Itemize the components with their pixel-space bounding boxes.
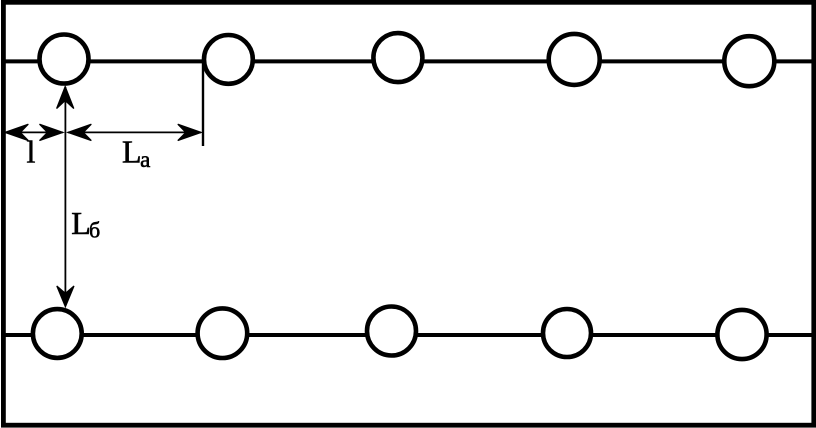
top row line [4, 59, 813, 63]
arrowhead La left [68, 124, 92, 140]
hole B3 [367, 307, 416, 356]
svg-text:l: l [27, 134, 36, 170]
arrowhead l right [40, 124, 64, 140]
hole T2 [204, 35, 253, 84]
hole T4 [549, 34, 600, 85]
svg-text:La: La [122, 134, 150, 172]
svg-text:Lб: Lб [71, 205, 100, 243]
arrowhead Lb up [57, 87, 74, 109]
hole B1 [33, 309, 82, 358]
arrowhead l left [5, 124, 29, 140]
dimension line l [5, 131, 63, 133]
dimension shaft Lb vertical [64, 87, 66, 306]
hole B4 [543, 309, 591, 357]
arrowhead La right [178, 124, 202, 140]
hole B2 [198, 308, 248, 358]
bottom row line [4, 333, 813, 337]
extension line at hole T2 left edge [202, 62, 204, 146]
hole T5 [724, 36, 774, 86]
arrowhead Lb down [57, 286, 74, 307]
hole T3 [373, 33, 422, 82]
hole T1 [40, 35, 89, 84]
dimension line La [68, 131, 201, 133]
hole B5 [717, 310, 766, 359]
